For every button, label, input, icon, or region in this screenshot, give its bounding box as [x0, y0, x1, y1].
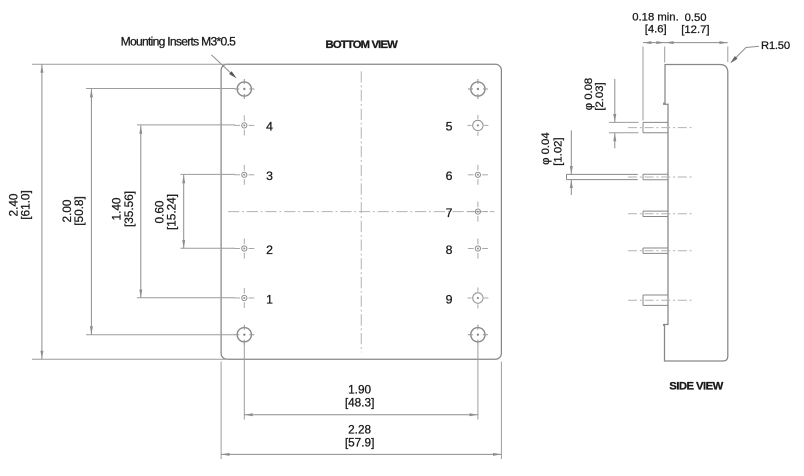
- dim 1.40 extension top: [137, 124, 235, 126]
- mounting inserts leader: [211, 55, 233, 75]
- side view pin row 2 shoulder: [643, 173, 668, 175]
- svg-text:[12.7]: [12.7]: [681, 24, 709, 36]
- side view pin row 3 shoulder: [643, 210, 668, 212]
- pin 5: [467, 115, 488, 136]
- svg-text:R1.50: R1.50: [761, 40, 790, 52]
- svg-text:9: 9: [446, 292, 453, 306]
- svg-text:[35.56]: [35.56]: [122, 191, 136, 227]
- svg-text:[2.03]: [2.03]: [594, 82, 606, 110]
- dim 0.50 extension right: [727, 47, 729, 63]
- dim 2.40 line: [41, 64, 43, 359]
- dim 1.40 line: [140, 125, 142, 298]
- dim 1.40 extension bottom: [137, 297, 235, 299]
- pin 3: [234, 165, 254, 185]
- dim 0.18/0.50 line: [643, 42, 728, 44]
- svg-text:[4.6]: [4.6]: [645, 23, 667, 35]
- svg-text:5: 5: [446, 120, 453, 134]
- svg-text:[50.8]: [50.8]: [72, 196, 86, 226]
- pin 7: [468, 202, 488, 222]
- svg-text:[48.3]: [48.3]: [345, 395, 375, 409]
- dim phi0.08 line: [614, 79, 616, 122]
- dim phi0.08 extension top: [609, 121, 639, 123]
- dim 2.00 extension top: [86, 88, 235, 90]
- dim 1.90 extension right: [477, 342, 479, 420]
- dim 2.00 extension bottom: [86, 334, 235, 336]
- pin 6: [468, 165, 488, 185]
- svg-text:Mounting Inserts M3*0.5: Mounting Inserts M3*0.5: [121, 34, 237, 48]
- module package outline (bottom view): [221, 64, 501, 359]
- svg-text:8: 8: [446, 243, 453, 257]
- dim phi0.08 extension bottom: [609, 132, 639, 134]
- svg-text:1: 1: [266, 292, 273, 306]
- svg-text:7: 7: [446, 206, 453, 220]
- svg-text:0.50: 0.50: [685, 12, 707, 24]
- dim 0.18 extension middle: [664, 47, 666, 63]
- dim 2.28 extension right: [500, 362, 502, 460]
- dim 2.00 line: [90, 89, 92, 335]
- side view body outline: [664, 65, 728, 362]
- R1.50 leader: [732, 46, 760, 62]
- horizontal centerline: [228, 211, 495, 213]
- side view pin row 3 centerline: [628, 213, 692, 215]
- mounting hole top-left: [234, 79, 254, 99]
- svg-text:[1.02]: [1.02]: [553, 137, 565, 165]
- svg-text:6: 6: [446, 169, 453, 183]
- side view pin row 5 centerline: [628, 299, 692, 301]
- pin 9: [467, 288, 488, 309]
- svg-text:4: 4: [266, 120, 273, 134]
- svg-text:2: 2: [266, 243, 273, 257]
- dim 0.60 extension top: [181, 173, 236, 175]
- side view pin row 1 shoulder: [643, 121, 668, 123]
- side view pin row 2 centerline: [628, 176, 692, 178]
- dim 1.90 extension left: [243, 342, 245, 420]
- side view pin row 4 centerline: [628, 250, 692, 252]
- svg-text:[57.9]: [57.9]: [345, 435, 375, 449]
- mounting hole bottom-right: [468, 325, 488, 345]
- svg-text:3: 3: [266, 169, 273, 183]
- dim phi0.04 line: [570, 130, 572, 174]
- svg-text:φ 0.04: φ 0.04: [540, 132, 552, 164]
- dim 0.60 extension bottom: [181, 247, 236, 249]
- svg-text:[61.0]: [61.0]: [19, 190, 33, 220]
- dim 0.18 extension left: [642, 47, 644, 121]
- dim 0.60 line: [183, 175, 185, 249]
- vertical centerline: [360, 71, 362, 352]
- dim 2.40 extension bottom: [32, 358, 228, 360]
- dim 2.40 extension top: [32, 63, 228, 65]
- svg-text:[15.24]: [15.24]: [165, 194, 179, 230]
- side view pin row 1 centerline: [628, 127, 692, 129]
- pin 8: [468, 239, 488, 259]
- side view pin row 5 shoulder: [643, 294, 668, 296]
- svg-text:BOTTOM VIEW: BOTTOM VIEW: [326, 39, 399, 51]
- side view pin row 4 shoulder: [643, 247, 668, 249]
- pin 2: [234, 239, 254, 259]
- pin 4: [234, 115, 254, 135]
- dim 2.28 line: [221, 453, 501, 455]
- svg-text:SIDE VIEW: SIDE VIEW: [669, 381, 723, 393]
- side view long pin row 2: [567, 173, 638, 175]
- dim 2.28 extension left: [220, 362, 222, 460]
- svg-text:0.18 min.: 0.18 min.: [632, 11, 678, 23]
- pin 1: [234, 288, 254, 308]
- dim 1.90 line: [244, 414, 478, 416]
- mounting hole top-right: [468, 79, 488, 99]
- mounting hole bottom-left: [234, 325, 254, 345]
